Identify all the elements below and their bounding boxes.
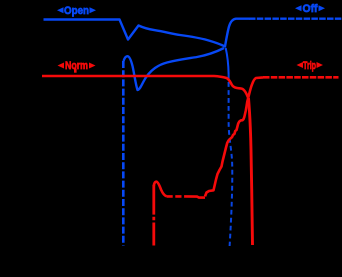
red trace A recovery rise to flat level on right xyxy=(248,77,263,97)
label Trip (red, mid-right) xyxy=(297,60,324,72)
blue trace B dashed vertical drop at closing instant xyxy=(122,61,125,246)
blue falling edge at opening instant (solid top) xyxy=(226,48,229,74)
label Norm (red, mid-left) xyxy=(58,60,96,73)
blue trace B: transient peak and dip after closing xyxy=(124,48,225,90)
blue dashed falling edge at opening instant xyxy=(229,74,233,246)
svg-text:Off: Off xyxy=(303,3,318,15)
svg-text:Trip: Trip xyxy=(303,60,316,72)
svg-text:Open: Open xyxy=(64,5,89,17)
blue trace A: open-contact voltage, flat then notch, decline, steep rise to Off level xyxy=(44,20,226,47)
red trace A right flat level (dashed) xyxy=(263,76,339,79)
label Open (blue, top-left) xyxy=(57,5,96,17)
blue trace A dashed top-right level xyxy=(249,18,342,20)
red falling edge of surge pulse xyxy=(249,98,253,245)
red surge pulse rising edge (dashed vertical) xyxy=(152,185,155,246)
red surge pulse staircase ramp up xyxy=(205,98,248,197)
blue trace A steep rising edge to top-right level xyxy=(225,19,249,47)
red surge pulse peak and settle xyxy=(154,182,167,197)
red surge pulse bottom flat (dashed) xyxy=(167,195,187,198)
red trace A: flat normal level with sag to junction xyxy=(42,76,248,98)
label Off (blue, top-right) xyxy=(295,3,325,15)
